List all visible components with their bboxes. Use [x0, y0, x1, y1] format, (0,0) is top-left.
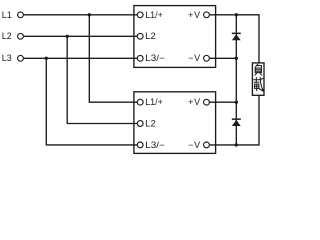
PSU1 pin L1/+ circle: [137, 12, 143, 18]
junction -V1 series link: [235, 57, 238, 60]
svg-text:L3/−: L3/−: [145, 140, 165, 150]
PSU2 pin L1/+ circle: [137, 99, 143, 105]
svg-text:L2: L2: [2, 31, 12, 41]
svg-text:L3: L3: [2, 53, 12, 63]
wire diode rail vertical: [235, 15, 237, 145]
svg-text:−V: −V: [188, 53, 201, 63]
svg-text:L1/+: L1/+: [145, 10, 163, 20]
wire L1 to PSU1 L1/+: [24, 14, 138, 16]
wire +V1 to load top: [210, 15, 259, 63]
svg-text:L2: L2: [145, 31, 156, 41]
svg-text:L3/−: L3/−: [145, 53, 165, 63]
svg-text:L2: L2: [145, 118, 156, 128]
glyph FU (top char of load): [255, 64, 262, 75]
wire L2 branch down to PSU2 L2: [67, 36, 137, 123]
PSU2 pin +V circle: [204, 99, 210, 105]
power supply unit 2 box: [134, 92, 216, 154]
wire L1 branch down to PSU2 L1/+: [89, 15, 137, 102]
PSU1 pin L2 circle: [137, 33, 143, 39]
svg-text:−V: −V: [188, 140, 201, 150]
PSU2 pin L2 circle: [137, 121, 143, 127]
load label "fu zai" (load) drawn glyphs: [254, 64, 264, 91]
PSU2 pin L3/- circle: [137, 142, 143, 148]
node L1 terminal circle: [18, 12, 24, 18]
power supply unit 1 box: [134, 6, 216, 68]
wire -V2 to load bottom: [210, 95, 259, 145]
svg-text:+V: +V: [188, 10, 201, 20]
load box: [252, 63, 264, 95]
svg-text:+V: +V: [188, 97, 201, 107]
node L2 terminal circle: [18, 33, 24, 39]
wire L2 to PSU1 L2: [24, 35, 138, 37]
junction L1 branch: [88, 13, 91, 16]
wire L3 to PSU1 L3/-: [24, 57, 138, 59]
PSU1 pin -V circle: [204, 55, 210, 61]
diode D1 (across PSU1 output): [232, 33, 241, 41]
wire +V2 to series link: [210, 101, 237, 103]
PSU2 pin -V circle: [204, 142, 210, 148]
svg-text:L1/+: L1/+: [145, 97, 163, 107]
junction L2 branch: [66, 35, 69, 38]
junction +V2 series link: [235, 101, 238, 104]
junction L3 branch: [45, 57, 48, 60]
node L3 terminal circle: [18, 55, 24, 61]
junction diode2 anode rail: [235, 143, 238, 146]
wire -V1 to series link: [210, 57, 237, 59]
wire L3 branch down to PSU2 L3/-: [46, 58, 137, 145]
diode D2 (across PSU2 output): [232, 118, 241, 126]
junction diode1 cathode rail: [235, 13, 238, 16]
glyph ZAI (bottom char of load): [254, 77, 264, 91]
PSU1 pin L3/- circle: [137, 55, 143, 61]
svg-text:L1: L1: [2, 10, 12, 20]
PSU1 pin +V circle: [204, 12, 210, 18]
